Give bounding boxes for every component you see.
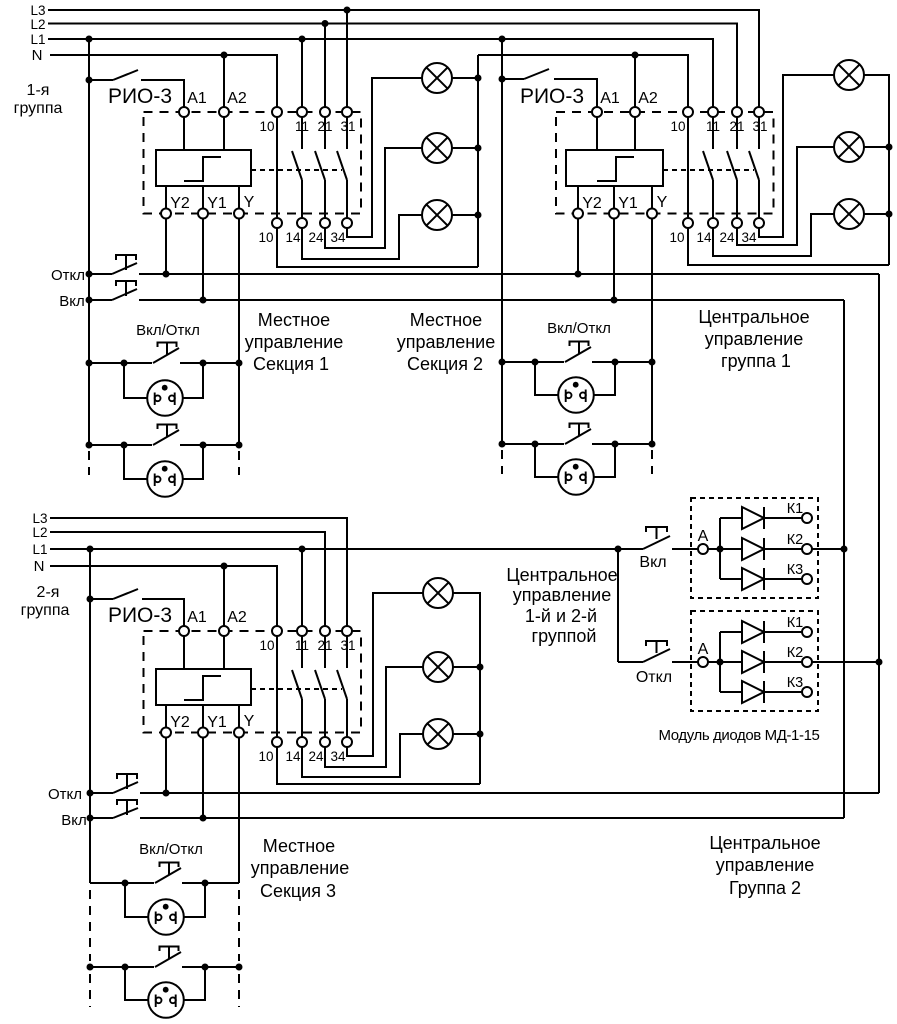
svg-text:Модуль диодов МД-1-15: Модуль диодов МД-1-15 [659,727,820,744]
svg-text:10: 10 [258,749,273,764]
socket XS2a [535,362,558,395]
wire Y2-2 drop [577,219,579,275]
junction N-2/A2-3 [221,563,228,570]
svg-text:Центральное: Центральное [698,307,809,327]
relay U3 body [156,669,251,705]
svg-text:34: 34 [330,230,346,245]
terminal 10-3 bottom [272,737,282,747]
wire switch1 to A1 [141,80,184,107]
svg-text:Y2: Y2 [170,714,190,731]
junction (205,967) [202,964,209,971]
junction (124,445) [121,442,128,449]
wire L1 drop to 11 [301,39,303,107]
terminal A2 [219,107,229,117]
junction (125,967) [122,964,129,971]
contact K3.2 [324,636,326,668]
terminal Y2-3 [161,728,171,738]
diode VD2.3 [720,691,742,693]
wire A1 to coil [183,117,185,150]
junction Y1-3/Vkl2 [200,815,207,822]
terminal Y [234,209,244,219]
junction (615,444) [612,441,619,448]
wire lamp3 tap [452,214,478,216]
svg-text:Y1: Y1 [207,195,227,212]
wire A to diodes [708,548,742,550]
wire A2 to coil [223,117,225,150]
wire lamp5 tap [864,146,889,148]
wire lamp6 tap [864,213,889,215]
wire Y1 stub [202,186,204,208]
wire Otkl line group1 [139,273,879,275]
terminal 31-3 [342,626,352,636]
svg-text:L1: L1 [30,32,45,47]
wire N to A2 [223,55,225,107]
relay U3 dashed box [144,631,362,733]
svg-text:Y1: Y1 [207,714,227,731]
junction Y2-3/Otkl2 [163,790,170,797]
svg-text:управление: управление [397,332,495,352]
switch SA1 group1 [89,79,113,81]
module VD1 dashed box [691,498,818,598]
junction L1/11 [299,36,306,43]
svg-text:A2: A2 [227,609,247,626]
junction (889,147) [886,144,893,151]
svg-text:2-я: 2-я [37,584,60,601]
svg-text:14: 14 [285,749,301,764]
svg-text:управление: управление [513,585,611,605]
junction (89,274) [86,271,93,278]
svg-text:L3: L3 [30,3,45,18]
svg-text:34: 34 [330,749,346,764]
svg-text:группой: группой [532,626,597,646]
wire row1 section1 [89,362,152,364]
wire row1 section2 [502,361,564,363]
svg-text:управление: управление [716,855,814,875]
svg-text:L2: L2 [30,17,45,32]
svg-text:24: 24 [308,230,324,245]
terminal Y-2 [647,209,657,219]
svg-text:Группа 2: Группа 2 [729,878,801,898]
wire A1-2 to coil [596,117,598,150]
junction (652,444) [649,441,656,448]
wire Vkl line group2 [140,817,844,819]
wire Y1 drop [202,219,204,301]
actuation dashed link U1 [251,169,342,171]
terminal 34 [342,218,352,228]
contact K3.1 [301,636,303,668]
svg-text:группа: группа [14,100,63,117]
wire right lamps common [864,75,889,265]
svg-text:Центральное: Центральное [506,565,617,585]
wire 34 to lamp1 [347,78,422,237]
junction (889,214) [886,211,893,218]
junction (480,667) [477,664,484,671]
svg-text:РИО-3: РИО-3 [108,604,172,627]
svg-text:Y: Y [244,194,255,211]
svg-text:РИО-3: РИО-3 [520,85,584,108]
junction (203,363) [200,360,207,367]
wire K2 module2 to Otkl rail [812,661,879,663]
wire lamps common group1 [477,55,479,267]
junction (480,734) [477,731,484,738]
svg-text:Вкл: Вкл [61,812,87,829]
svg-text:A: A [698,528,709,545]
wire 10-3 bottom to lamps common2 [277,747,480,784]
terminal A1-2 [592,107,602,117]
terminal 34-3 [342,737,352,747]
junction L3/31 [344,7,351,14]
terminal Y1-2 [609,209,619,219]
svg-text:Секция 3: Секция 3 [260,881,336,901]
wire L2 drop to 21 [324,24,326,108]
junction L1-2/11-3 [299,546,306,553]
lamp EL5 [834,132,864,162]
svg-text:Местное: Местное [263,836,335,856]
terminal A1 [179,107,189,117]
terminal 10-2 bottom [683,218,693,228]
svg-text:Вкл: Вкл [59,293,85,310]
button SB1b [158,425,177,430]
svg-text:К3: К3 [787,562,804,578]
junction (90,967) [87,964,94,971]
button SB2a [570,342,589,347]
wire Otkl rail x879 [878,274,880,793]
svg-text:1-й и 2-й: 1-й и 2-й [525,606,597,626]
wire 14-3 to lamp9 [302,734,423,777]
wire A to diodes module2 [708,661,742,663]
svg-text:Y: Y [244,713,255,730]
junction (618,549) [615,546,622,553]
svg-text:A1: A1 [187,90,207,107]
contact K1.1 [301,117,303,149]
wire L2-2 [50,532,325,626]
wire row2 section3 [90,966,154,968]
junction (502,79) [499,76,506,83]
contact K2.2 [736,117,738,149]
wire row2 section2 [502,443,564,445]
diode VD2.2 [742,651,764,673]
relay U1 body [156,150,251,186]
wire N-2 [50,566,277,626]
junction (89,363) [86,360,93,367]
wire Y1-3 drop [202,738,204,819]
wire K2 module1 to Vkl rail [812,548,844,550]
wire switch2 to A1 [554,79,597,107]
wire 10 through [276,117,278,218]
svg-text:A1: A1 [600,90,620,107]
junction Next/A2-2 [632,52,639,59]
relay U2 body [566,150,663,186]
wire Y2-3 drop [165,738,167,794]
wire A1-3 to coil [183,636,185,669]
terminal A1-3 [179,626,189,636]
relay U1 hysteresis symbol [184,157,221,181]
svg-text:К2: К2 [787,532,804,548]
terminal A2-2 [630,107,640,117]
wire 10 bottom to lamps common [277,228,478,267]
terminal 11 [297,107,307,117]
socket XS1b [124,445,147,479]
wire lamps common group2 [453,593,480,784]
terminal K3 module2 [802,687,812,697]
svg-text:N: N [32,47,43,64]
svg-text:К1: К1 [787,501,804,517]
junction (239,363) [236,360,243,367]
svg-text:10: 10 [259,638,274,653]
svg-text:A: A [698,641,709,658]
svg-text:10: 10 [259,119,274,134]
junction (124,363) [121,360,128,367]
lamp EL3 [422,200,452,230]
svg-text:Местное: Местное [258,310,330,330]
svg-text:управление: управление [245,332,343,352]
svg-text:A1: A1 [187,609,207,626]
wire lamp8 tap [453,666,480,668]
relay U2 hysteresis symbol [597,157,634,181]
wire dashed rails below row2 section3 [89,974,91,1007]
lamp EL1 [422,63,452,93]
junction Y1/Vkl [200,297,207,304]
junction (502,444) [499,441,506,448]
button SB1a [158,343,177,348]
junction L2/21 [322,20,329,27]
wire L1-2 drop to 11-3 [301,549,303,626]
wire Y1-2 drop [613,219,615,301]
lamp EL4 [834,60,864,90]
terminal A module2 [698,657,708,667]
junction L1-2/left rail2 [87,546,94,553]
svg-text:14: 14 [696,230,712,245]
lamp EL9 [423,719,453,749]
svg-text:10: 10 [258,230,273,245]
terminal 24-3 [320,737,330,747]
junction (89,445) [86,442,93,449]
svg-text:34: 34 [741,230,757,245]
wire central split [617,549,619,662]
switch SA2 [502,78,524,80]
wire 14-2 to lamp6 [713,214,834,256]
svg-text:Откл: Откл [51,267,85,284]
button SB3b [160,947,179,952]
relay U1 dashed box [144,112,362,214]
wire Y-2 stub [651,186,653,208]
wire Y1-2 stub [613,186,615,208]
terminal K1 module2 [802,627,812,637]
wire lamp2 tap [452,147,478,149]
junction (844,549) [841,546,848,553]
svg-text:Y1: Y1 [618,195,638,212]
module VD2 dashed box [691,611,818,711]
junction (478,148) [475,145,482,152]
wire L3-2 [50,518,347,626]
relay U3 hysteresis symbol [184,676,221,700]
svg-text:14: 14 [285,230,301,245]
terminal 21-2 [732,107,742,117]
wire 34-2 to lamp4 [759,75,834,237]
svg-text:группа 1: группа 1 [721,351,791,371]
svg-text:N: N [34,558,45,575]
wire Y2 stub [165,186,167,208]
svg-text:Откл: Откл [636,669,672,686]
socket XS3a [125,883,148,917]
svg-text:Y2: Y2 [582,195,602,212]
wire rail x502 [501,39,503,444]
terminal 34-2 [754,218,764,228]
terminal 10 bottom [272,218,282,228]
svg-text:Местное: Местное [410,310,482,330]
contact K2.3 [758,117,760,149]
wire Y2-3 stub [165,705,167,727]
socket XS1a [124,363,147,398]
svg-text:10: 10 [670,119,685,134]
junction Y1-2/Vkl [611,297,618,304]
junction (125,883) [122,880,129,887]
svg-text:К3: К3 [787,675,804,691]
terminal Y2 [161,209,171,219]
wire 24-2 to lamp5 [737,147,834,245]
svg-text:A2: A2 [227,90,247,107]
wire Y1-3 stub [202,705,204,727]
terminal K2 module2 [802,657,812,667]
svg-text:Секция 2: Секция 2 [407,354,483,374]
wire lamp1 tap [452,77,478,79]
junction Y2-2/Otkl [575,271,582,278]
junction (478,78) [475,75,482,82]
wire diode feed vertical module2 [719,632,721,692]
lamp EL6 [834,199,864,229]
terminal 24-2 [732,218,742,228]
wire L1 [48,39,713,107]
wire 10-2 bottom to right lamps common [688,228,889,265]
contact K2.1 [712,117,714,149]
terminal 31 [342,107,352,117]
terminal A module1 [698,544,708,554]
button SB3a [160,863,179,868]
svg-text:Вкл: Вкл [639,554,666,571]
svg-text:24: 24 [719,230,735,245]
terminal 14-2 [708,218,718,228]
contact K1.3 [346,117,348,149]
terminal 31-2 [754,107,764,117]
svg-text:Y: Y [657,194,668,211]
wire 14 to lamp3 [302,215,422,259]
actuation dashed link U3 [251,688,342,690]
terminal 21-3 [320,626,330,636]
switch SA3 [90,598,113,600]
terminal 10 top [272,107,282,117]
svg-text:L1: L1 [32,542,47,557]
wire Y2-2 stub [577,186,579,208]
terminal 14-3 [297,737,307,747]
junction (879,662) [876,659,883,666]
wire 10-3 through [276,636,278,737]
svg-text:L2: L2 [32,525,47,540]
junction (652,362) [649,359,656,366]
wire Y stub [238,186,240,208]
socket XS3b [125,967,148,1000]
terminal 11-3 [297,626,307,636]
svg-text:управление: управление [705,329,803,349]
wire switch3 to A1-3 [142,599,184,626]
diode VD1.2 [742,538,764,560]
wire 10-2 through [687,117,689,218]
wire N [50,55,277,107]
junction (89,80) [86,77,93,84]
wire dashed continuation rails section1 [88,451,90,475]
svg-text:24: 24 [308,749,324,764]
actuation dashed link U2 [663,169,754,171]
junction (90,599) [87,596,94,603]
wire N extension right [478,55,688,107]
svg-text:Центральное: Центральное [709,833,820,853]
junction (478,215) [475,212,482,219]
lamp EL7 [423,578,453,608]
svg-text:Вкл/Откл: Вкл/Откл [139,841,203,858]
terminal 14 [297,218,307,228]
junction (203,445) [200,442,207,449]
terminal 21 [320,107,330,117]
terminal 24 [320,218,330,228]
wire Y drop section1 [238,219,240,446]
wire A2-3 to coil [223,636,225,669]
junction (720,662) [717,659,724,666]
junction Y2/Otkl [163,271,170,278]
diode VD2.1 [720,631,742,633]
wire dashed continuation rails section2 [501,450,503,474]
svg-text:К1: К1 [787,615,804,631]
svg-text:управление: управление [251,858,349,878]
wire 34-3 to lamp7 [347,593,423,756]
contact K3.3 [346,636,348,668]
wire A2-2 to coil [634,117,636,150]
junction (502,362) [499,359,506,366]
terminal A2-3 [219,626,229,636]
wire Vkl line group1 [139,299,844,301]
terminal Y-3 [234,728,244,738]
diode VD1.3 [720,578,742,580]
junction L1/rail x502 [499,36,506,43]
wire Y-2 drop section2 [651,219,653,445]
svg-text:К2: К2 [787,645,804,661]
wire Y-3 stub [238,705,240,727]
terminal K1 module1 [802,513,812,523]
wire dashed rails between rows section3 [89,890,91,961]
terminal K2 module1 [802,544,812,554]
junction (535,444) [532,441,539,448]
junction (90,818) [87,815,94,822]
junction (90,793) [87,790,94,797]
junction (720,549) [717,546,724,553]
junction (239,967) [236,964,243,971]
svg-text:группа: группа [21,602,70,619]
svg-text:Вкл/Откл: Вкл/Откл [547,320,611,337]
junction (615,362) [612,359,619,366]
relay U2 dashed box [556,112,774,214]
terminal Y1 [198,209,208,219]
svg-text:Откл: Откл [48,786,82,803]
svg-text:A2: A2 [638,90,658,107]
svg-text:L3: L3 [32,511,47,526]
svg-text:1-я: 1-я [27,82,50,99]
junction (239,445) [236,442,243,449]
junction (205,883) [202,880,209,887]
junction N/A2 [221,52,228,59]
terminal K3 module1 [802,574,812,584]
terminal Y1-3 [198,728,208,738]
wire row1 section3 [90,882,154,884]
contact K1.2 [324,117,326,149]
junction L1/left rail [86,36,93,43]
